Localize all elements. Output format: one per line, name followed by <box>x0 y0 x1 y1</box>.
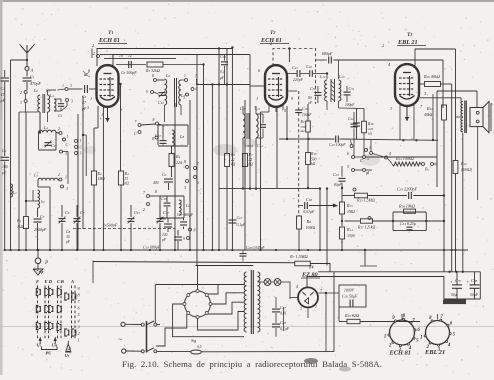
svg-text:C28: C28 <box>280 320 286 325</box>
svg-text:B: B <box>60 279 64 284</box>
svg-text:1: 1 <box>390 106 392 111</box>
svg-text:3: 3 <box>87 105 89 110</box>
svg-text:220: 220 <box>368 127 373 131</box>
svg-text:1MΩ: 1MΩ <box>98 177 106 181</box>
svg-text:1: 1 <box>256 96 258 101</box>
svg-text:8: 8 <box>184 160 186 164</box>
svg-text:C2: C2 <box>2 148 7 153</box>
svg-text:4: 4 <box>112 54 114 58</box>
svg-text:2: 2 <box>143 208 145 212</box>
svg-text:500: 500 <box>311 158 317 162</box>
svg-text:3: 3 <box>71 100 73 104</box>
svg-text:C18: C18 <box>160 217 166 221</box>
svg-text:3: 3 <box>366 148 368 152</box>
svg-text:C6: C6 <box>162 172 167 177</box>
svg-text:2: 2 <box>58 173 60 177</box>
svg-text:C17 360pF: C17 360pF <box>177 213 194 217</box>
svg-text:kΩ: kΩ <box>125 182 130 186</box>
svg-text:L10: L10 <box>239 107 246 111</box>
svg-text:L11: L11 <box>254 107 260 111</box>
svg-text:R8: R8 <box>306 219 312 224</box>
svg-text:1000V: 1000V <box>344 289 355 293</box>
svg-text:EBL 21: EBL 21 <box>424 349 445 356</box>
svg-text:4: 4 <box>296 285 298 289</box>
svg-text:4: 4 <box>389 152 391 156</box>
svg-text:kΩ: kΩ <box>311 162 316 166</box>
svg-text:3: 3 <box>78 325 80 330</box>
svg-text:3: 3 <box>20 101 22 105</box>
svg-text:1MΩ: 1MΩ <box>347 210 355 214</box>
svg-text:C38: C38 <box>471 278 478 283</box>
svg-text:C19 680pF: C19 680pF <box>143 245 161 250</box>
svg-text:4: 4 <box>78 318 80 323</box>
svg-text:3: 3 <box>424 91 426 96</box>
svg-text:R4: R4 <box>175 154 181 159</box>
svg-text:L5: L5 <box>40 200 45 204</box>
svg-text:9: 9 <box>146 90 148 94</box>
svg-text:3: 3 <box>65 152 67 156</box>
svg-text:C8 100pF: C8 100pF <box>121 70 137 75</box>
svg-text:EBL 21: EBL 21 <box>397 39 418 46</box>
svg-text:2: 2 <box>92 43 94 48</box>
svg-text:C31: C31 <box>349 86 355 91</box>
svg-text:1: 1 <box>184 74 186 78</box>
svg-text:100: 100 <box>162 233 168 237</box>
svg-text:C3: C3 <box>58 114 63 118</box>
svg-text:2: 2 <box>388 344 392 349</box>
svg-text:50μ: 50μ <box>451 293 457 297</box>
svg-text:3300: 3300 <box>347 234 355 238</box>
svg-text:PU: PU <box>46 351 53 356</box>
svg-text:kΩ: kΩ <box>301 129 306 133</box>
svg-text:R19 82Ω: R19 82Ω <box>344 313 359 318</box>
svg-text:C27: C27 <box>280 305 286 310</box>
svg-text:R22: R22 <box>460 161 467 166</box>
svg-text:C17: C17 <box>163 210 169 215</box>
svg-text:8: 8 <box>194 229 196 233</box>
svg-text:2: 2 <box>93 52 95 56</box>
svg-text:80: 80 <box>308 96 312 100</box>
svg-text:680pF: 680pF <box>322 51 333 56</box>
svg-text:C22: C22 <box>348 117 354 121</box>
svg-text:kΩ: kΩ <box>231 163 236 167</box>
svg-text:C26 50μF: C26 50μF <box>342 294 358 299</box>
svg-text:12: 12 <box>128 54 132 58</box>
svg-text:pF: pF <box>0 98 6 103</box>
svg-text:C33 2200pF: C33 2200pF <box>397 187 418 192</box>
svg-text:C16: C16 <box>306 65 312 69</box>
svg-text:2: 2 <box>270 41 272 46</box>
svg-text:R21: R21 <box>426 106 433 111</box>
svg-text:+: + <box>467 279 470 284</box>
svg-text:8: 8 <box>152 137 154 141</box>
svg-text:2: 2 <box>20 91 22 95</box>
svg-text:2x500pF: 2x500pF <box>103 223 118 228</box>
svg-text:US: US <box>65 353 70 358</box>
svg-text:3: 3 <box>80 152 82 156</box>
svg-text:1: 1 <box>80 139 82 143</box>
svg-text:2: 2 <box>382 43 384 48</box>
svg-text:3: 3 <box>66 187 68 191</box>
svg-text:L1: L1 <box>12 191 17 195</box>
svg-text:1: 1 <box>65 176 67 180</box>
svg-text:C23: C23 <box>333 172 339 177</box>
svg-text:C3: C3 <box>40 214 45 219</box>
svg-text:22: 22 <box>231 158 235 162</box>
svg-text:100pF: 100pF <box>345 103 355 107</box>
svg-text:5: 5 <box>284 108 286 113</box>
svg-text:1: 1 <box>315 305 317 309</box>
svg-text:3: 3 <box>70 84 72 88</box>
svg-text:~: ~ <box>119 336 123 344</box>
svg-text:C20: C20 <box>220 54 226 59</box>
svg-text:C: C <box>134 131 137 136</box>
svg-text:1kΩ: 1kΩ <box>17 225 24 229</box>
svg-text:1: 1 <box>78 338 80 343</box>
svg-text:R20 40kΩ: R20 40kΩ <box>423 74 440 79</box>
svg-text:ECH 81: ECH 81 <box>389 350 411 357</box>
svg-text:50μF: 50μF <box>470 293 479 297</box>
svg-text:ECH 81: ECH 81 <box>98 37 120 44</box>
svg-text:C19: C19 <box>302 107 308 111</box>
svg-text:R10: R10 <box>310 151 317 156</box>
svg-text:F: F <box>365 171 369 176</box>
svg-text:C15: C15 <box>292 65 298 70</box>
svg-text:30: 30 <box>66 235 70 239</box>
svg-text:μF: μF <box>220 76 225 80</box>
svg-text:4: 4 <box>447 343 451 348</box>
svg-text:F: F <box>36 279 39 284</box>
svg-text:R4: R4 <box>124 171 129 176</box>
svg-text:C1: C1 <box>30 74 35 79</box>
svg-text:L6: L6 <box>165 73 170 78</box>
svg-text:3: 3 <box>183 96 185 100</box>
svg-text:5: 5 <box>78 312 80 317</box>
svg-text:C10: C10 <box>237 216 243 220</box>
svg-text:L4: L4 <box>49 94 54 98</box>
svg-text:R6: R6 <box>230 152 235 157</box>
svg-text:2500pF: 2500pF <box>34 227 47 232</box>
svg-text:C1: C1 <box>1 86 6 91</box>
svg-text:5: 5 <box>347 165 349 169</box>
svg-text:R15: R15 <box>346 203 353 208</box>
svg-text:33: 33 <box>125 177 129 181</box>
svg-text:2: 2 <box>58 127 60 131</box>
svg-text:C37: C37 <box>455 278 462 283</box>
svg-text:L2: L2 <box>33 88 38 93</box>
svg-text:L13: L13 <box>338 74 345 79</box>
svg-text:1: 1 <box>62 84 64 88</box>
svg-text:R2: R2 <box>97 171 102 176</box>
svg-text:470pF: 470pF <box>30 81 41 86</box>
svg-text:pF: pF <box>161 238 167 242</box>
svg-text:R24 100kΩ: R24 100kΩ <box>395 156 414 161</box>
svg-text:R1: R1 <box>16 218 22 223</box>
svg-text:kΩ: kΩ <box>249 163 254 167</box>
svg-text:1: 1 <box>67 135 69 139</box>
svg-text:1: 1 <box>384 334 386 339</box>
svg-text:C8: C8 <box>66 230 71 234</box>
svg-text:6: 6 <box>347 152 349 156</box>
svg-text:D: D <box>48 279 53 284</box>
svg-text:9: 9 <box>183 237 185 241</box>
svg-text:L4: L4 <box>43 125 48 130</box>
svg-text:C16: C16 <box>161 196 167 201</box>
svg-text:L12: L12 <box>319 74 326 79</box>
svg-text:22: 22 <box>249 158 253 162</box>
svg-text:C12: C12 <box>158 100 164 105</box>
svg-text:8: 8 <box>152 74 154 78</box>
svg-text:EZ 80: EZ 80 <box>301 272 318 279</box>
svg-text:100pF: 100pF <box>302 113 312 117</box>
svg-text:R16: R16 <box>367 122 374 126</box>
svg-text:C15: C15 <box>134 210 140 215</box>
svg-text:R3 32kΩ: R3 32kΩ <box>145 68 160 73</box>
svg-text:220pF: 220pF <box>293 78 304 82</box>
svg-text:P: P <box>44 261 48 266</box>
svg-text:kΩ: kΩ <box>368 132 373 136</box>
svg-text:+: + <box>450 279 453 284</box>
svg-text:R14: R14 <box>346 227 353 232</box>
svg-text:3: 3 <box>300 307 302 311</box>
svg-text:10MΩ: 10MΩ <box>306 226 316 230</box>
svg-text:100: 100 <box>2 165 8 169</box>
svg-text:Sig: Sig <box>191 338 196 343</box>
svg-text:1: 1 <box>101 112 103 117</box>
svg-text:8: 8 <box>155 190 157 194</box>
svg-text:pF: pF <box>65 240 71 244</box>
svg-text:A: A <box>70 279 74 284</box>
svg-text:80pF: 80pF <box>334 183 342 187</box>
svg-text:L8: L8 <box>179 134 184 139</box>
svg-text:R9: R9 <box>300 120 305 124</box>
svg-text:10: 10 <box>119 54 123 58</box>
svg-text:220: 220 <box>176 160 182 165</box>
svg-text:E: E <box>44 279 48 284</box>
svg-text:2: 2 <box>78 331 80 336</box>
svg-text:Pu: Pu <box>424 167 429 172</box>
svg-text:1: 1 <box>420 335 422 340</box>
svg-text:A: A <box>30 68 34 73</box>
svg-text:3: 3 <box>184 186 186 190</box>
svg-text:C4: C4 <box>51 143 56 148</box>
svg-text:R18 10kΩ: R18 10kΩ <box>398 204 415 209</box>
svg-text:1: 1 <box>90 96 92 101</box>
svg-text:400: 400 <box>153 181 159 185</box>
svg-text:pF: pF <box>81 106 87 111</box>
svg-text:8: 8 <box>153 118 155 122</box>
svg-text:40kΩ: 40kΩ <box>424 113 432 117</box>
svg-text:L5: L5 <box>33 173 38 178</box>
svg-text:R7: R7 <box>248 152 253 157</box>
svg-text:5: 5 <box>367 157 369 161</box>
svg-text:C6: C6 <box>65 210 70 215</box>
svg-text:μF: μF <box>2 171 7 175</box>
svg-text:C18: C18 <box>306 197 312 202</box>
svg-text:C: C <box>66 142 69 147</box>
svg-text:C29 100pF: C29 100pF <box>329 143 346 147</box>
svg-text:C: C <box>360 158 363 163</box>
svg-text:100pf: 100pf <box>245 144 254 148</box>
svg-text:4: 4 <box>388 62 390 67</box>
svg-text:UL: UL <box>37 343 42 348</box>
svg-text:C13: C13 <box>155 133 161 138</box>
svg-text:C7: C7 <box>80 210 85 215</box>
